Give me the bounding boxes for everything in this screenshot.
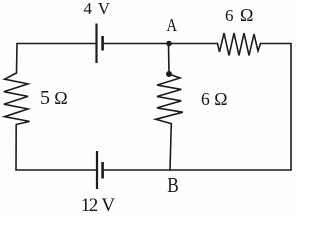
svg-text:V: V (98, 0, 111, 18)
svg-text:Ω: Ω (214, 89, 227, 109)
svg-text:V: V (101, 195, 115, 216)
svg-text:A: A (167, 15, 178, 35)
svg-text:5: 5 (40, 87, 50, 109)
svg-text:12: 12 (81, 195, 98, 216)
svg-text:Ω: Ω (240, 5, 253, 25)
svg-text:4: 4 (84, 0, 93, 18)
svg-text:Ω: Ω (54, 88, 67, 108)
svg-text:B: B (167, 173, 179, 197)
svg-text:6: 6 (225, 6, 234, 25)
svg-text:6: 6 (201, 89, 210, 109)
